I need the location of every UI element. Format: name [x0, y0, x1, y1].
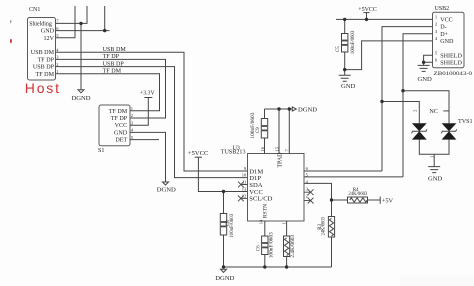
svg-text:+3.3V: +3.3V	[140, 91, 156, 97]
svg-text:DGND: DGND	[157, 187, 176, 194]
wire chip pin4 to R4 node	[304, 183, 332, 200]
chip left pin numbers	[242, 166, 247, 198]
wire USB2 D-	[382, 27, 433, 171]
svg-text:2: 2	[306, 193, 308, 198]
svg-text:+5VCC: +5VCC	[188, 150, 209, 157]
svg-text:12V: 12V	[44, 36, 55, 42]
wire GND pin6	[56, 30, 110, 32]
wire D+ branch to TVS	[403, 91, 449, 124]
svg-text:2: 2	[413, 110, 418, 112]
chip right pin numbers	[306, 166, 309, 198]
resistor R4 zigzag	[350, 198, 368, 202]
svg-text:NC: NC	[429, 109, 437, 115]
svg-text:USB DM: USB DM	[103, 47, 127, 53]
svg-text:11: 11	[242, 180, 246, 185]
connector CN1 body	[28, 18, 56, 81]
wire C5 lead top	[344, 19, 346, 33]
wire Shielding to DGND	[80, 23, 82, 89]
diode TVS1 left pair	[412, 123, 427, 139]
wire R3 lead top	[331, 200, 333, 217]
wire C5 to earth	[344, 70, 346, 76]
node DGND flag triangle	[292, 107, 296, 111]
svg-text:Host: Host	[25, 80, 61, 96]
resistor R1 body	[284, 236, 290, 257]
label C5	[336, 30, 356, 54]
connector S1 body	[99, 105, 130, 146]
power +5VCC bar	[195, 156, 202, 158]
svg-text:+5VCC: +5VCC	[358, 7, 377, 13]
svg-text:D-: D-	[440, 25, 446, 31]
svg-text:GND: GND	[428, 176, 443, 183]
svg-text:+5V: +5V	[382, 197, 394, 204]
wire C9 top rail to DGND flag	[265, 108, 293, 110]
svg-text:CN1: CN1	[29, 7, 40, 13]
wire net USB DM	[56, 52, 248, 171]
svg-text:GND: GND	[114, 130, 128, 136]
label C6	[256, 232, 274, 259]
wire USB2 D+	[403, 34, 433, 177]
resistor R1 zigzag	[285, 238, 289, 256]
resistor R3 body	[328, 217, 334, 238]
chip bottom pin numbers rotated	[258, 219, 286, 224]
svg-text:USB DP: USB DP	[33, 65, 55, 71]
svg-text:SDA: SDA	[249, 182, 262, 189]
svg-text:TF DP: TF DP	[103, 54, 120, 60]
svg-text:1: 1	[429, 156, 434, 158]
svg-text:12: 12	[242, 193, 247, 198]
svg-text:TF DP: TF DP	[111, 116, 128, 122]
wire node to R4	[332, 199, 348, 201]
svg-text:1: 1	[131, 106, 133, 111]
ground earth TVS	[428, 167, 440, 173]
op chip U3 body	[248, 154, 305, 222]
svg-text:TVS1: TVS1	[458, 119, 473, 125]
faint panel bottom right	[400, 276, 474, 286]
wire edge tick top left	[10, 20, 12, 23]
CN1 pin numbers	[56, 19, 59, 74]
wire R3 lead bottom	[331, 237, 333, 267]
svg-text:USB DM: USB DM	[31, 50, 55, 56]
capacitor C6 body	[262, 236, 268, 255]
svg-text:D+: D+	[440, 32, 448, 38]
S1 pin numbers	[131, 106, 134, 140]
red edge tick	[10, 39, 12, 43]
svg-text:RSTN: RSTN	[263, 204, 269, 218]
svg-text:DGND: DGND	[298, 106, 317, 113]
wire bottom DGND rail	[224, 266, 332, 268]
ground earth shield	[418, 65, 430, 71]
ground DGND below S1	[163, 182, 169, 185]
resistor R4 body	[348, 197, 368, 203]
wire R4 to +5V	[368, 199, 381, 201]
wire C5 lead bottom	[344, 52, 346, 70]
power +3.3V bar	[144, 97, 152, 99]
label R1	[291, 234, 296, 258]
resistor R3 zigzag	[329, 218, 333, 236]
wire pin7 stub	[288, 109, 290, 154]
svg-text:SHIELD: SHIELD	[440, 60, 462, 66]
label C8	[226, 213, 235, 237]
svg-text:TF DM: TF DM	[109, 109, 128, 115]
USB2 pin numbers	[435, 14, 438, 62]
wire +5VCC top rail	[336, 18, 433, 20]
wire S1 DET stub	[130, 139, 159, 141]
svg-text:Shielding: Shielding	[29, 21, 52, 27]
svg-text:C6: C6	[256, 245, 261, 251]
svg-text:100nF/0603: 100nF/0603	[269, 232, 274, 259]
svg-text:2: 2	[131, 113, 133, 118]
svg-text:TPAD: TPAD	[278, 152, 284, 168]
svg-text:C5: C5	[336, 46, 341, 52]
svg-text:100nF/0603: 100nF/0603	[351, 30, 356, 54]
ground DGND bottom rail	[221, 269, 227, 272]
svg-text:1: 1	[435, 14, 437, 19]
svg-text:TF DM: TF DM	[36, 72, 55, 78]
capacitor C5 body	[342, 34, 348, 53]
wire chip pin1 stub	[286, 221, 288, 236]
svg-text:GND: GND	[341, 83, 356, 90]
svg-text:15: 15	[274, 146, 279, 151]
label R4	[348, 188, 367, 197]
svg-text:GND: GND	[418, 76, 433, 83]
power +5V bar	[379, 197, 381, 204]
wire TVS bottoms	[419, 140, 449, 167]
svg-text:DGND: DGND	[71, 95, 90, 102]
wire +5VCC top stem	[366, 13, 368, 20]
svg-text:2: 2	[435, 22, 437, 27]
wire TVS NC tick	[443, 110, 448, 112]
svg-text:2: 2	[56, 62, 58, 67]
svg-text:SCL/CD: SCL/CD	[249, 196, 272, 203]
wire chip pin5 to USB D+	[304, 176, 403, 178]
label C9	[251, 112, 261, 139]
svg-text:100nF/0603: 100nF/0603	[251, 112, 256, 139]
no-connect X marks	[238, 182, 314, 204]
diode TVS1 left zener bar	[412, 129, 427, 133]
wire R1 lead bottom	[286, 257, 288, 268]
wire C8 lead top	[223, 192, 225, 214]
wire net TF DM	[56, 74, 160, 111]
svg-text:1: 1	[56, 69, 58, 74]
svg-text:14: 14	[258, 219, 263, 224]
svg-text:GND: GND	[440, 39, 454, 45]
svg-text:16: 16	[260, 146, 265, 151]
wire chip pin6 to USB D-	[304, 170, 382, 172]
svg-text:TF DP: TF DP	[38, 57, 55, 63]
wire Shielding pin7	[56, 6, 88, 23]
svg-text:24K/0603: 24K/0603	[322, 217, 327, 236]
svg-text:S1: S1	[98, 148, 104, 154]
svg-text:C9: C9	[256, 127, 261, 133]
svg-text:24K/0603: 24K/0603	[348, 192, 367, 197]
capacitor C8 body	[220, 214, 226, 236]
wire USB2 shield pins	[424, 55, 433, 65]
wire net USB DP	[56, 67, 248, 178]
svg-text:USB DP: USB DP	[103, 61, 125, 67]
wire net TF DP	[56, 59, 166, 118]
wire GND up	[104, 6, 106, 31]
svg-text:GND: GND	[41, 29, 55, 35]
wire S1 GND to DGND	[130, 132, 166, 181]
chip top pin numbers rotated	[260, 146, 290, 151]
power +5VCC top bar	[363, 12, 369, 14]
wire C6 lead bottom	[264, 255, 266, 268]
ground DGND below CN1	[78, 90, 84, 93]
wire chip pin14 stub	[264, 221, 266, 236]
connector USB2 body	[433, 12, 465, 68]
capacitor C9 body	[261, 119, 267, 139]
diode TVS1 right zener bar	[441, 129, 456, 133]
wire 12V pin5	[56, 6, 76, 38]
wire D- branch to TVS	[382, 102, 419, 124]
svg-text:TUSB213: TUSB213	[221, 150, 246, 156]
svg-text:10: 10	[242, 173, 247, 178]
label R3	[318, 217, 327, 236]
wire C9 lead to pin16	[264, 138, 266, 154]
svg-text:2.4K/0603: 2.4K/0603	[291, 234, 296, 258]
svg-text:VCC: VCC	[115, 123, 128, 129]
diode TVS1 right pair	[442, 123, 457, 139]
svg-text:DET: DET	[115, 138, 127, 144]
svg-text:SHIELD: SHIELD	[440, 53, 462, 59]
svg-text:13: 13	[242, 187, 247, 192]
svg-text:VCC: VCC	[440, 17, 453, 23]
svg-text:ZB0100043-0: ZB0100043-0	[434, 71, 473, 77]
wire C8 lead bottom	[223, 235, 225, 267]
ground earth below C5	[339, 75, 351, 81]
wire C9 lead top	[264, 109, 266, 119]
svg-text:DGND: DGND	[215, 275, 234, 282]
svg-text:1: 1	[282, 222, 287, 224]
wire S1 VCC to +3.3V	[130, 98, 148, 126]
svg-text:100nF/0603: 100nF/0603	[230, 213, 235, 237]
svg-text:USB2: USB2	[435, 6, 450, 12]
wire pin15 TPAD stub	[278, 109, 280, 154]
wire +5VCC to VCC pin13	[198, 157, 247, 191]
capacitor plates group	[221, 40, 348, 249]
svg-text:TF DM: TF DM	[103, 69, 122, 75]
wire USB2 GND to C5	[345, 41, 433, 70]
